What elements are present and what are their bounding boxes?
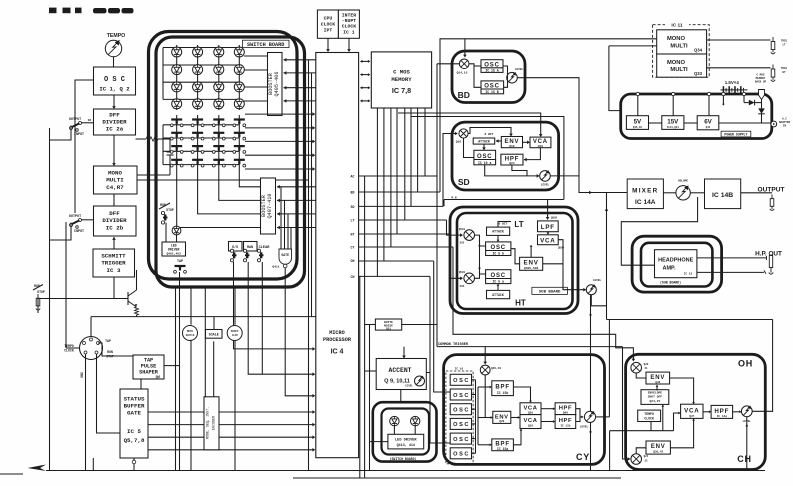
- LED step 4-4: [234, 99, 244, 109]
- wire divider2a to mono multi: [112, 135, 116, 166]
- svg-text:DIVIDER: DIVIDER: [102, 119, 127, 126]
- oscillator OSC IC 15 A: [481, 60, 503, 73]
- wire vca and env to level: [543, 240, 587, 292]
- wire column down 1: [175, 287, 177, 471]
- svg-text:Q14,15: Q14,15: [457, 72, 468, 75]
- wire DIN tap to tap shaper: [98, 343, 133, 356]
- svg-text:ATTACK: ATTACK: [492, 230, 504, 234]
- vca VCA Q39: [520, 415, 541, 429]
- svg-text:8 BIT: 8 BIT: [484, 133, 493, 136]
- switch step 1-3: [212, 120, 225, 127]
- svg-text:502: 502: [460, 242, 465, 245]
- wire switch1 to divider2a: [82, 122, 94, 124]
- svg-text:VOLUME: VOLUME: [678, 180, 688, 183]
- svg-text:IC 14B: IC 14B: [712, 192, 733, 199]
- wire second rail vertical: [65, 222, 67, 348]
- switch SCALE: [206, 330, 223, 339]
- svg-text:SWITCH BOARD: SWITCH BOARD: [247, 42, 284, 48]
- resistor emitter: [135, 307, 139, 317]
- continuation arrow: [28, 465, 47, 472]
- terminal 6V: [707, 92, 710, 115]
- terminal battery minus: [722, 92, 725, 105]
- label C MOS MEMORY BACK UP: [755, 74, 767, 84]
- wire lower voices collector: [605, 193, 609, 320]
- svg-text:IC 12a: IC 12a: [717, 415, 727, 418]
- block ATTACK HT: [487, 290, 510, 298]
- svg-text:Q39: Q39: [528, 425, 533, 428]
- connector DIN sync: [64, 337, 114, 378]
- envelope ENV Q18: [501, 137, 522, 148]
- svg-text:SHUT OFF: SHUT OFF: [648, 396, 663, 399]
- jack AC adapter: [771, 118, 791, 128]
- wire vca to hpf: [524, 148, 541, 162]
- svg-text:MAN: MAN: [247, 246, 253, 250]
- svg-text:Q503: Q503: [459, 271, 466, 274]
- voice board BD outline: [452, 51, 525, 103]
- svg-text:ENVELOPE: ENVELOPE: [648, 392, 663, 395]
- LED accent 2: [411, 416, 420, 425]
- svg-text:DFF: DFF: [109, 210, 120, 217]
- svg-text:SCHMITT: SCHMITT: [101, 253, 126, 260]
- svg-text:LT: LT: [351, 218, 355, 222]
- svg-text:Q24,25: Q24,25: [649, 400, 660, 403]
- switch board small outline outer: [373, 402, 437, 461]
- svg-text:Q505,506: Q505,506: [524, 267, 539, 270]
- headphone board outline outer: [632, 236, 722, 292]
- wire attack to osc: [482, 144, 486, 150]
- INTERRUPT CLOCK IC 1: [338, 10, 359, 38]
- envelope ENV Q36,42: [646, 441, 670, 454]
- svg-text:LED DRIVER: LED DRIVER: [395, 438, 417, 442]
- wire mixer to env: [464, 128, 513, 158]
- svg-text:GATE: GATE: [127, 410, 141, 417]
- wire headphone out 2: [697, 271, 764, 273]
- block ATTACK LT: [487, 227, 510, 235]
- wire trig HT jack: [707, 65, 788, 82]
- svg-text:ACCENT: ACCENT: [388, 367, 411, 374]
- battery 1.5V x4: [721, 80, 748, 94]
- svg-text:IC 12b: IC 12b: [560, 424, 570, 428]
- svg-text:OH: OH: [351, 259, 355, 263]
- svg-text:IC 15 A: IC 15 A: [485, 69, 498, 73]
- wire CY rail to collector: [608, 320, 610, 417]
- title logo fragment TR-606 (cropped): [49, 8, 134, 14]
- wire env2 to vca bottom: [670, 418, 695, 447]
- STATUS BUFFER GATE IC 5: [120, 389, 148, 458]
- LED accent 1: [390, 416, 399, 425]
- terminal battery plus: [742, 92, 745, 102]
- svg-text:MONO: MONO: [667, 36, 686, 42]
- mixer amp MIXER IC 14A: [627, 179, 663, 209]
- switch step 2-3: [212, 133, 225, 140]
- svg-text:CPU: CPU: [324, 16, 333, 22]
- svg-text:22: 22: [644, 460, 648, 463]
- LED run/stop: [172, 226, 181, 235]
- LED step 2-2: [193, 65, 203, 75]
- potentiometer LT/HT LEVEL: [586, 279, 601, 295]
- MODE SEQ INST ENCODER: [204, 397, 219, 450]
- LED step 3-4: [234, 82, 244, 92]
- potentiometer OH/CH LEVEL: [741, 406, 752, 423]
- wire CH trigger: [623, 347, 631, 461]
- wire switch columns to booster2: [177, 168, 261, 228]
- wire switch wire down a: [234, 262, 315, 349]
- wire switch2 to left rail: [50, 223, 72, 241]
- svg-text:MUTE: MUTE: [187, 330, 194, 333]
- wire lpf to vca: [547, 232, 550, 235]
- LED step 2-1: [172, 65, 182, 75]
- BOOSTER Q405-406: [268, 53, 283, 116]
- potentiometer VOLUME: [676, 180, 690, 201]
- wire attack2 to osc a: [497, 284, 500, 291]
- svg-text:IC 2a: IC 2a: [106, 126, 124, 133]
- svg-text:MIXER: MIXER: [632, 188, 658, 195]
- wire mono multi q33 input: [609, 45, 657, 47]
- svg-text:IC 5 a: IC 5 a: [492, 280, 504, 284]
- svg-text:Q45,46: Q45,46: [633, 126, 643, 129]
- gate GATE Q411: [272, 249, 291, 269]
- wire attack1 to osc b: [497, 235, 500, 242]
- wire driver to left: [370, 441, 388, 443]
- wire scale top feed: [213, 317, 215, 330]
- LED step 1-1: [172, 47, 182, 57]
- regulator 5V: [626, 116, 648, 130]
- wire interrupt clock to micro: [347, 38, 351, 52]
- svg-text:CY: CY: [351, 245, 355, 249]
- wire switch2 to divider2b: [82, 219, 94, 221]
- wire oscbank to bpf2: [478, 443, 492, 446]
- svg-text:IC13,Q44: IC13,Q44: [667, 126, 680, 129]
- svg-text:5V: 5V: [634, 118, 642, 125]
- svg-text:OUTPUT: OUTPUT: [757, 186, 784, 193]
- switch board outline outer: [149, 32, 298, 280]
- wire booster1 lines from micro: [284, 58, 316, 103]
- mixer Q16,17: [456, 129, 468, 144]
- wire CY trigger from common: [483, 347, 487, 365]
- wire oscbank to env: [478, 416, 493, 419]
- wire gate inputs: [281, 187, 291, 249]
- diode backup down: [758, 108, 765, 123]
- wire hpf to level OH: [733, 410, 742, 413]
- diode backup charge: [744, 100, 762, 106]
- wire DIN tempo clock to rail: [66, 347, 80, 349]
- switch step 4-3: [212, 160, 225, 167]
- wire led to driver: [176, 235, 178, 242]
- svg-text:504: 504: [460, 285, 465, 288]
- mixer LT Q501: [459, 228, 475, 245]
- wire env38 to vca: [670, 378, 695, 404]
- svg-text:LEVEL: LEVEL: [580, 426, 589, 429]
- block WHITE NOISE Q31: [375, 319, 401, 331]
- wire oscillators to level: [503, 66, 508, 87]
- oscillator CY OSC 4: [450, 418, 471, 429]
- wire schmitt to divider 2b: [112, 237, 116, 249]
- switch step 2-4: [233, 133, 246, 140]
- wire bottom bus 1: [46, 470, 765, 472]
- wire LED rows to booster: [244, 56, 268, 101]
- wire LT trigger: [447, 220, 464, 237]
- bpf BPF IC 15b: [492, 381, 514, 396]
- svg-text:1.5V×4: 1.5V×4: [725, 80, 740, 85]
- switch step 3-3: [212, 146, 225, 153]
- voice board LT/HT outline inner: [457, 213, 573, 309]
- wire vca1 to hpf1: [541, 407, 555, 410]
- switch step 4-1: [170, 160, 183, 167]
- svg-text:C MOS: C MOS: [393, 69, 410, 76]
- block ATTACK SD: [473, 138, 495, 144]
- svg-text:POWER SUPPLY: POWER SUPPLY: [724, 133, 747, 137]
- wire osc b to env: [511, 249, 520, 264]
- svg-text:IPT: IPT: [324, 28, 333, 34]
- svg-text:VCA: VCA: [684, 407, 699, 414]
- wire BD trigger: [440, 39, 657, 192]
- switch step 3-1: [170, 146, 183, 153]
- LED DRIVER Q401,402: [162, 242, 186, 256]
- potentiometer CY LEVEL: [580, 411, 596, 428]
- svg-text:SCALE: SCALE: [209, 333, 219, 337]
- switch RUN/STOP panel: [159, 203, 174, 224]
- LED step 4-1: [172, 99, 182, 109]
- svg-text:O S C: O S C: [453, 437, 468, 443]
- jack HP OUT: [764, 256, 773, 275]
- svg-text:6 BIT: 6 BIT: [498, 223, 507, 226]
- wire accent to led driver: [400, 390, 402, 403]
- terminal 15V: [672, 92, 675, 115]
- wire micro rail bottom: [359, 276, 361, 478]
- wire mute down: [190, 340, 192, 471]
- svg-text:LEVEL: LEVEL: [593, 279, 602, 282]
- svg-text:LEVEL: LEVEL: [405, 385, 413, 388]
- wire gate output to micro: [285, 268, 315, 398]
- wire status to micro 3: [148, 435, 315, 439]
- svg-text:DIVIDER: DIVIDER: [102, 217, 127, 224]
- wire leds to driver: [394, 426, 415, 435]
- wire CY output: [596, 416, 610, 418]
- wire BD output collector: [517, 78, 627, 195]
- svg-text:O S C: O S C: [104, 76, 125, 84]
- svg-text:MICRO: MICRO: [329, 330, 345, 336]
- potentiometer BD LEVEL: [507, 68, 524, 83]
- svg-text:TEMPO: TEMPO: [644, 412, 654, 416]
- vca VCA Q30: [520, 403, 541, 415]
- svg-text:IN: IN: [783, 125, 787, 128]
- wire runstop switch to driver: [165, 223, 167, 243]
- wire OH trigger internal bus: [610, 404, 681, 470]
- svg-text:Q5,7,8: Q5,7,8: [124, 437, 145, 444]
- wire voices return line: [607, 319, 773, 321]
- wire column down 6: [234, 287, 236, 325]
- wire trigger line to microprocessor: [91, 316, 316, 318]
- mixer CH Q21,22: [631, 454, 649, 465]
- wire tempo to OSC: [113, 57, 115, 67]
- vca VCA LT: [538, 235, 565, 250]
- wire column down 3: [204, 287, 206, 397]
- wire tap switch down to bus: [179, 272, 181, 471]
- CPU CLOCK IPT: [317, 10, 338, 38]
- svg-text:CLOCK: CLOCK: [321, 22, 336, 28]
- LED step 1-3: [214, 47, 224, 57]
- svg-text:LEVEL: LEVEL: [515, 68, 524, 71]
- potentiometer TEMPO: [105, 33, 125, 57]
- svg-text:TRIG: TRIG: [781, 40, 788, 43]
- wire switch rows to micro: [245, 112, 315, 170]
- wire mixer to volume: [663, 192, 676, 194]
- voice board LT/HT outline outer: [450, 207, 578, 314]
- regulator 6V: [697, 116, 719, 130]
- svg-text:ATTACK: ATTACK: [492, 293, 504, 297]
- svg-text:DFF: DFF: [109, 112, 120, 119]
- svg-text:VCA: VCA: [523, 418, 537, 424]
- bus memory address lines down: [377, 108, 425, 276]
- svg-text:HT: HT: [515, 299, 526, 308]
- memory C MOS IC 7,8: [371, 52, 431, 108]
- block osc bank dashed IC 16: [446, 371, 473, 464]
- svg-text:AC: AC: [351, 175, 355, 179]
- wire HT mixer to osc a: [475, 274, 486, 278]
- voice board SD outline: [452, 122, 559, 190]
- svg-text:STOP: STOP: [37, 290, 45, 294]
- svg-text:SHUFF: SHUFF: [231, 330, 239, 333]
- svg-text:IC 15b: IC 15b: [497, 391, 509, 395]
- wire LTHT output: [591, 295, 606, 306]
- switch step 2-1: [170, 133, 183, 140]
- svg-text:Q401,402: Q401,402: [166, 253, 181, 256]
- oscillator CY OSC 5: [450, 433, 471, 444]
- svg-text:IC 5 b: IC 5 b: [492, 252, 504, 256]
- svg-text:BACK UP: BACK UP: [755, 81, 767, 84]
- wire left rail vertical: [49, 128, 51, 471]
- svg-text:IC 4: IC 4: [331, 349, 344, 356]
- wire micro rail down 2: [369, 325, 371, 471]
- svg-text:INTER: INTER: [342, 13, 357, 19]
- wire env to attack: [496, 139, 502, 143]
- amp IC 14B: [705, 179, 741, 209]
- svg-text:IC 11: IC 11: [671, 23, 683, 29]
- svg-text:21: 21: [644, 367, 648, 370]
- svg-text:GND: GND: [80, 372, 84, 378]
- svg-text:AMP.: AMP.: [662, 266, 676, 272]
- amp HEADPHONE AMP IC 15: [655, 250, 697, 278]
- wire headphone out 1: [697, 257, 767, 259]
- wire mono multi to divider 2b: [113, 194, 115, 206]
- svg-text:LPF: LPF: [541, 224, 555, 231]
- mixer OH Q20,21: [631, 362, 649, 373]
- envelope ENV Q28 CY: [493, 411, 511, 423]
- wire mixer down to env line: [484, 375, 486, 418]
- wire OH trigger: [453, 247, 635, 362]
- wire shutoff to env38: [656, 385, 659, 391]
- svg-text:-RUPT: -RUPT: [342, 18, 357, 24]
- LED step 3-1: [172, 82, 182, 92]
- wire DIN top: [90, 317, 92, 337]
- svg-text:BD: BD: [458, 90, 470, 100]
- hpf HPF IC 12a: [711, 405, 733, 418]
- wire OH mixer to env: [636, 373, 646, 378]
- block IC 11 dashed: [653, 25, 710, 77]
- svg-text:LEVEL: LEVEL: [541, 184, 550, 187]
- wire volume to 14b: [690, 192, 704, 194]
- wire white noise taps: [365, 324, 437, 326]
- wire LED matrix rails: [163, 45, 239, 110]
- wire status to micro 2: [148, 423, 315, 427]
- switch board outline inner: [156, 37, 305, 287]
- LED step 2-4: [234, 65, 244, 75]
- wire shuffle down: [234, 340, 236, 471]
- svg-text:Q6: Q6: [156, 376, 161, 380]
- switch step 1-2: [191, 120, 204, 127]
- wire OHCH output: [752, 320, 772, 412]
- svg-text:Q23: Q23: [509, 162, 515, 165]
- svg-text:O S C: O S C: [453, 378, 468, 384]
- wire cpu clock to micro: [326, 38, 330, 52]
- wire accent feeder vertical: [436, 64, 438, 347]
- svg-text:SHAPER: SHAPER: [139, 370, 159, 376]
- svg-text:(SWITCH BOARD): (SWITCH BOARD): [390, 457, 417, 461]
- wire accent drop: [402, 347, 406, 359]
- switch step 3-2: [191, 146, 204, 153]
- wire shared osc line arrows: [478, 240, 481, 274]
- svg-text:MULTI: MULTI: [670, 67, 688, 73]
- wire bpf2 to vca2: [513, 429, 522, 445]
- svg-text:IC 15a: IC 15a: [497, 447, 509, 451]
- wire CY noise feed 1: [434, 261, 450, 392]
- svg-text:MEMORY: MEMORY: [391, 76, 412, 83]
- svg-text:CLOCK: CLOCK: [644, 417, 654, 421]
- hpf HPF Q23: [501, 154, 523, 165]
- wire mixer to oscillators: [469, 64, 481, 88]
- wire SD trigger: [443, 132, 458, 207]
- wire DIN gnd down: [85, 354, 87, 471]
- svg-text:IC 15: IC 15: [684, 273, 693, 276]
- voice board CY outline: [444, 355, 605, 465]
- wire bottom left stub: [0, 473, 23, 475]
- capacitor C on feedback: [137, 139, 174, 175]
- LED step 4-2: [193, 99, 203, 109]
- wire accent feed OHCH pot: [745, 417, 748, 471]
- switch step 1-4: [233, 120, 246, 127]
- svg-text:TAP: TAP: [177, 260, 183, 264]
- wire gnd drop right: [92, 458, 94, 471]
- DFF DIVIDER IC 2b: [94, 206, 137, 236]
- svg-text:FLAM: FLAM: [232, 334, 238, 337]
- switch step 1-1: [170, 120, 183, 127]
- wire switch1 to left rail: [50, 126, 72, 141]
- block ENVELOPE SHUT OFF: [641, 390, 669, 405]
- envelope ENV Q38: [646, 372, 670, 384]
- svg-text:IC 3: IC 3: [107, 267, 121, 274]
- svg-text:15V: 15V: [667, 118, 679, 125]
- block TEMPO CLOCK: [638, 410, 661, 421]
- svg-text:TRIGGER: TRIGGER: [101, 260, 126, 267]
- wire LPF LT feed loop: [411, 117, 564, 220]
- wire accent output: [426, 372, 430, 374]
- svg-text:D4: D4: [88, 119, 92, 122]
- wire runstop jack to transistor base: [38, 299, 124, 314]
- svg-text:O S C: O S C: [453, 408, 468, 414]
- svg-text:OH: OH: [738, 359, 753, 369]
- svg-text:IC 15 B: IC 15 B: [485, 90, 498, 94]
- headphone board outline inner: [641, 243, 712, 287]
- svg-text:CH: CH: [351, 275, 355, 279]
- wire env to vca: [523, 141, 531, 145]
- svg-text:Q405-406: Q405-406: [274, 72, 280, 97]
- svg-text:Q19: Q19: [538, 145, 544, 148]
- wire status to micro 4: [148, 448, 315, 452]
- svg-text:CH: CH: [737, 454, 752, 464]
- svg-text:Q36,42: Q36,42: [653, 451, 663, 454]
- svg-text:SD: SD: [458, 177, 470, 187]
- oscillator OSC IC 1, Q 2: [94, 67, 136, 95]
